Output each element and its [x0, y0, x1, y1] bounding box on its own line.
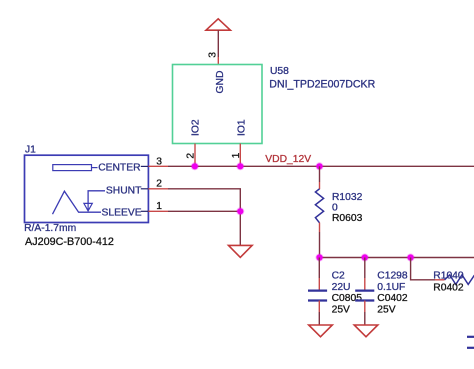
lower bus wire: [320, 257, 474, 259]
svg-text:25V: 25V: [332, 305, 350, 316]
svg-text:22U: 22U: [332, 282, 351, 293]
svg-text:IO2: IO2: [190, 119, 201, 136]
resistor R1040 zigzag: [445, 275, 474, 285]
pin 3 stub of J1: [148, 165, 168, 167]
power symbol VDD (up triangle): [206, 19, 230, 30]
svg-text:C0805: C0805: [332, 293, 363, 304]
wire from power symbol to U58 GND pin: [217, 30, 219, 57]
wire down to ground: [239, 211, 241, 245]
svg-text:AJ209C-B700-412: AJ209C-B700-412: [25, 236, 114, 248]
svg-text:2: 2: [185, 153, 196, 159]
SHUNT to edge dash: [141, 188, 149, 190]
junction U58 pin2: [191, 162, 199, 170]
ground (under C1298): [354, 325, 378, 337]
junction U58 pin1: [236, 162, 244, 170]
pin stub R1032 bottom: [319, 223, 321, 232]
capacitor C2 plates: [308, 290, 327, 292]
pin stub R1040 left: [435, 279, 445, 281]
svg-text:C2: C2: [332, 271, 345, 282]
svg-text:IO1: IO1: [236, 119, 247, 136]
svg-text:R/A-1.7mm: R/A-1.7mm: [24, 223, 76, 234]
junction bus/C2: [316, 254, 324, 262]
svg-text:SHUNT: SHUNT: [106, 185, 142, 196]
junction bus/C1298: [361, 254, 369, 262]
svg-text:U58: U58: [270, 66, 289, 77]
pin stub C1298 top: [364, 278, 366, 291]
resistor R1032 zigzag: [315, 189, 323, 223]
svg-text:0.1UF: 0.1UF: [377, 282, 405, 293]
ground (under J1): [229, 245, 253, 257]
shunt arm line: [88, 191, 105, 203]
svg-text:CENTER: CENTER: [98, 163, 140, 174]
pin stub C2 top: [318, 278, 320, 291]
ground (under C2): [309, 325, 333, 337]
connector J1 body (audio jack): [25, 155, 149, 222]
svg-text:2: 2: [156, 179, 162, 190]
tip to CENTER dash: [92, 167, 98, 169]
capacitor C1298 plates: [355, 290, 374, 292]
IC U58 body (ESD protection diode, DNI_TPD2E007DCKR): [173, 65, 263, 144]
svg-text:GND: GND: [215, 71, 226, 94]
tip contact rectangle: [53, 165, 92, 171]
svg-text:C0402: C0402: [377, 293, 408, 304]
junction sleeve/shunt: [236, 207, 244, 215]
pin 2 stub of J1: [148, 188, 168, 190]
svg-text:3: 3: [207, 52, 218, 58]
svg-text:C1298: C1298: [377, 271, 408, 282]
wire R1040 branch: [411, 258, 435, 280]
wire R1032 to bus: [319, 232, 321, 258]
svg-text:R1040: R1040: [433, 270, 464, 281]
pin stub R1032 top: [319, 182, 321, 189]
svg-text:R0402: R0402: [433, 282, 464, 293]
junction VDD / R1032: [316, 162, 324, 170]
CENTER to edge dash: [141, 165, 149, 167]
pin stub C2 bottom: [318, 301, 320, 313]
svg-text:25V: 25V: [377, 305, 395, 316]
sleeve contact zigzag: [53, 191, 102, 214]
shunt arrow head: [84, 203, 92, 211]
pin 1 stub of J1: [148, 210, 168, 212]
wire SHUNT to corner: [168, 189, 240, 212]
wire C1298 to ground: [364, 312, 366, 325]
wire C2 top: [318, 258, 320, 279]
svg-text:R1032: R1032: [332, 192, 363, 203]
svg-text:0: 0: [332, 203, 338, 214]
svg-text:R0603: R0603: [332, 213, 363, 224]
svg-text:J1: J1: [25, 144, 36, 155]
wire SLEEVE: [168, 210, 240, 212]
pin 2 stub of U58: [194, 144, 196, 167]
pin stub C1298 bottom: [364, 301, 366, 313]
svg-text:1: 1: [231, 152, 242, 158]
junction bus/R1040: [407, 254, 415, 262]
capacitor at right edge (partial plates): [467, 336, 474, 338]
svg-text:SLEEVE: SLEEVE: [102, 208, 142, 219]
svg-text:1: 1: [156, 201, 162, 212]
wire C1298 top: [364, 258, 366, 279]
svg-text:VDD_12V: VDD_12V: [265, 154, 311, 165]
wire VDD_12V horizontal: [168, 165, 474, 167]
wire C2 to ground: [318, 312, 320, 325]
pin 3 stub of U58 (GND): [217, 57, 219, 65]
SLEEVE to edge dash: [141, 210, 149, 212]
pin 1 stub of U58: [239, 144, 241, 167]
wire VDD junction down to R1032: [319, 166, 321, 182]
svg-text:DNI_TPD2E007DCKR: DNI_TPD2E007DCKR: [269, 78, 375, 90]
